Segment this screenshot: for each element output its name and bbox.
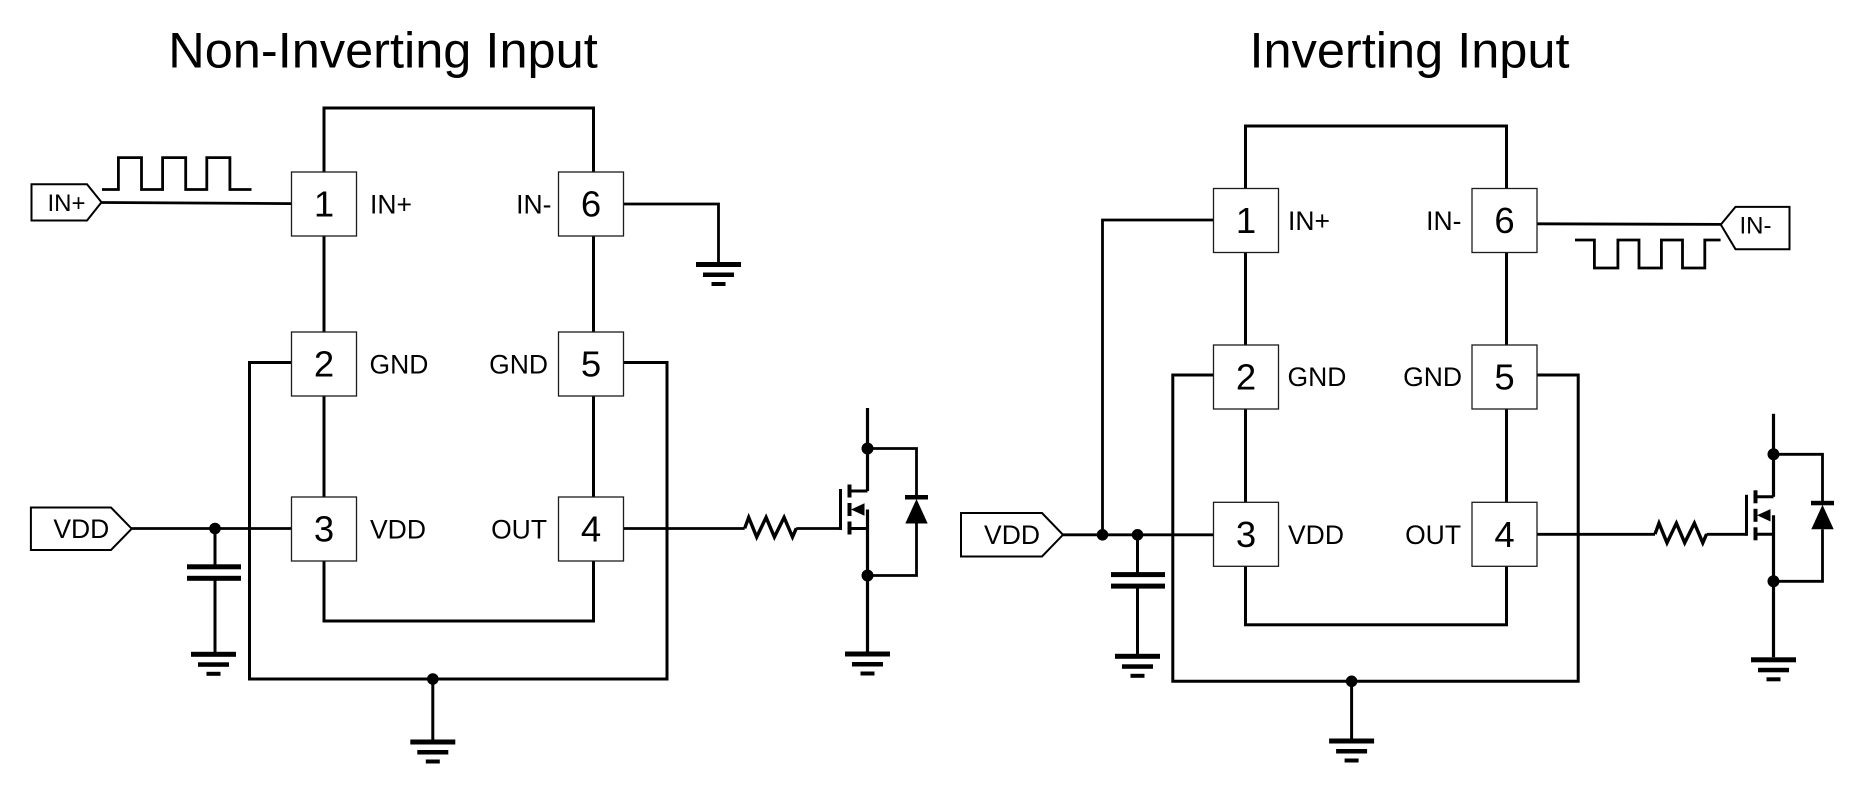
svg-text:6: 6: [1494, 200, 1514, 241]
svg-text:VDD: VDD: [370, 515, 426, 545]
svg-text:OUT: OUT: [1405, 520, 1461, 550]
svg-text:4: 4: [1494, 514, 1514, 555]
svg-text:4: 4: [581, 509, 601, 550]
svg-text:IN-: IN-: [1426, 206, 1461, 236]
svg-text:VDD: VDD: [53, 514, 109, 544]
svg-text:GND: GND: [1288, 362, 1347, 392]
svg-text:VDD: VDD: [1288, 520, 1344, 550]
svg-text:2: 2: [1236, 357, 1256, 398]
svg-text:VDD: VDD: [984, 520, 1040, 550]
svg-text:3: 3: [1236, 514, 1256, 555]
svg-text:Non-Inverting Input: Non-Inverting Input: [168, 22, 598, 79]
svg-text:GND: GND: [370, 350, 429, 380]
svg-text:IN+: IN+: [1288, 206, 1330, 236]
svg-text:2: 2: [314, 344, 334, 385]
svg-text:Inverting Input: Inverting Input: [1249, 22, 1569, 79]
svg-text:IN-: IN-: [1740, 212, 1772, 239]
svg-text:GND: GND: [489, 350, 548, 380]
svg-text:IN+: IN+: [47, 190, 85, 217]
svg-text:1: 1: [314, 184, 334, 225]
svg-text:OUT: OUT: [491, 515, 547, 545]
svg-text:3: 3: [314, 509, 334, 550]
svg-text:5: 5: [1494, 357, 1514, 398]
svg-text:GND: GND: [1403, 362, 1462, 392]
svg-text:1: 1: [1236, 200, 1256, 241]
svg-text:5: 5: [581, 344, 601, 385]
svg-text:6: 6: [581, 184, 601, 225]
svg-text:IN+: IN+: [370, 190, 412, 220]
svg-text:IN-: IN-: [516, 190, 551, 220]
